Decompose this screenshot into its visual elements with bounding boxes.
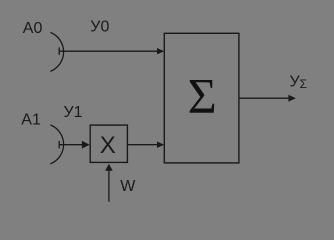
tick on A0 input: [58, 47, 60, 55]
wire multiplier to summator: [127, 144, 157, 146]
summator block U1: [164, 33, 239, 163]
wire A0 to summator: [59, 50, 157, 52]
svg-text:X: X: [100, 132, 116, 159]
output wire from summator: [239, 97, 289, 99]
svg-text:W: W: [120, 178, 136, 195]
tick on A1 input: [58, 141, 60, 149]
svg-text:Σ: Σ: [188, 68, 217, 124]
antenna arc A0: [50, 32, 63, 71]
svg-text:УΣ: УΣ: [290, 74, 308, 91]
svg-text:У0: У0: [90, 18, 109, 35]
arrowhead on output: [288, 95, 295, 102]
svg-text:A1: A1: [21, 111, 41, 128]
svg-text:A0: A0: [23, 20, 43, 37]
arrowhead into multiplier bottom input: [105, 164, 113, 171]
W input wire (vertical): [108, 170, 110, 202]
arrowhead into summator bottom input: [157, 142, 164, 148]
arrowhead into summator top input: [157, 48, 164, 54]
multiplier block (X): [90, 125, 127, 162]
arrowhead into multiplier left input: [82, 141, 90, 149]
wire A1 to multiplier: [59, 144, 83, 146]
svg-text:У1: У1: [64, 104, 83, 121]
antenna arc A1: [50, 125, 63, 164]
